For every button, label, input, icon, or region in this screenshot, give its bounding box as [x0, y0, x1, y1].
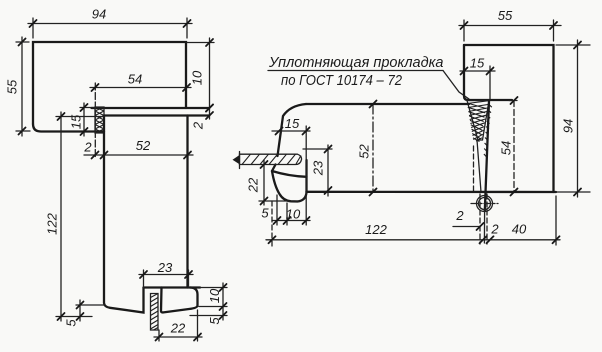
dimension 22 (left bottom) [154, 310, 202, 341]
svg-text:по ГОСТ 10174 – 72: по ГОСТ 10174 – 72 [281, 73, 402, 89]
svg-text:40: 40 [512, 222, 527, 237]
dimension 2 gap (left) [83, 140, 193, 159]
dimension 5 and 10 (right bottom left) [261, 195, 310, 225]
svg-text:54: 54 [499, 141, 514, 155]
drip bulb (left view bottom) [161, 288, 198, 313]
dimension 23 (right) [303, 145, 332, 196]
dimension 54 (right, dashed) [499, 97, 518, 196]
svg-text:5: 5 [64, 319, 79, 327]
svg-text:5: 5 [261, 206, 269, 221]
svg-text:52: 52 [136, 138, 151, 153]
svg-text:2: 2 [83, 140, 92, 155]
svg-text:2: 2 [191, 121, 206, 130]
dimension 54 (left) [90, 72, 191, 159]
svg-text:122: 122 [45, 212, 60, 234]
svg-text:122: 122 [365, 222, 387, 237]
leaf bottom slope and bulb (right view) [272, 171, 307, 202]
svg-text:10: 10 [207, 288, 222, 303]
dimension 2 (right, above chain) [453, 208, 484, 230]
leader line to gasket (right view) [443, 71, 469, 100]
leaf bar (right view) [272, 104, 556, 192]
dimension 22 (right) [246, 160, 298, 205]
svg-text:15: 15 [285, 116, 300, 131]
hinge circle (right view) [471, 196, 498, 212]
dimension 15 (right leaf lip) [272, 116, 310, 225]
svg-text:54: 54 [128, 72, 142, 87]
dimension 23 (left bottom) [139, 260, 193, 288]
dimension 10 (left bottom right) [199, 283, 227, 311]
gasket cross-hatch (left view) [95, 107, 104, 133]
dimension 15 (left gasket) [69, 103, 96, 136]
svg-text:10: 10 [190, 70, 205, 85]
frame head outline (left view) [33, 42, 186, 132]
svg-text:55: 55 [498, 8, 513, 23]
svg-text:2: 2 [490, 222, 499, 237]
dimension 15 (right top) [460, 56, 495, 100]
svg-text:Уплотняющая прокладка: Уплотняющая прокладка [268, 55, 444, 71]
dimension 122 (left) [45, 112, 104, 321]
dimension chain 122 2 40 (right bottom) [266, 196, 560, 246]
svg-text:52: 52 [357, 144, 372, 159]
dimension 10 (left, right side) [186, 38, 214, 119]
svg-text:23: 23 [157, 260, 173, 275]
dimension 2 lip thickness (left) [191, 105, 213, 131]
svg-text:22: 22 [246, 177, 261, 193]
frame jamb outline (right view) [464, 45, 554, 192]
note text sealing gasket [268, 55, 444, 89]
leaf stile (left view) [104, 116, 200, 313]
svg-text:94: 94 [561, 119, 576, 133]
svg-text:10: 10 [286, 207, 301, 222]
dimension 55 (left side) [5, 37, 30, 136]
svg-text:55: 55 [5, 79, 20, 94]
dimension 94 (left top) [28, 7, 192, 38]
dimension 5 (left bottom) [64, 300, 104, 327]
seal strip hatched (left view bottom) [151, 294, 159, 331]
lip strip hatched (right view) [233, 152, 302, 169]
dimension 94 (right side) [556, 40, 590, 197]
dimension 5 (left bottom right) [190, 311, 227, 325]
leaf edge lines (right view) [474, 101, 490, 243]
dimension 55 (right top) [459, 8, 561, 41]
svg-text:23: 23 [311, 160, 326, 176]
svg-text:94: 94 [92, 7, 106, 22]
svg-text:22: 22 [170, 321, 186, 336]
gasket wedge cross-hatch (right view) [467, 101, 492, 157]
svg-text:2: 2 [455, 208, 464, 223]
leaf lip strip 2 thick (left view) [92, 108, 210, 116]
dimension 52 (right, dash-dot) [357, 101, 377, 196]
dimension 52 (left) [136, 138, 191, 159]
dashed leaf lines below bar (right view) [480, 194, 487, 244]
svg-text:15: 15 [470, 56, 485, 71]
svg-text:5: 5 [207, 317, 222, 325]
